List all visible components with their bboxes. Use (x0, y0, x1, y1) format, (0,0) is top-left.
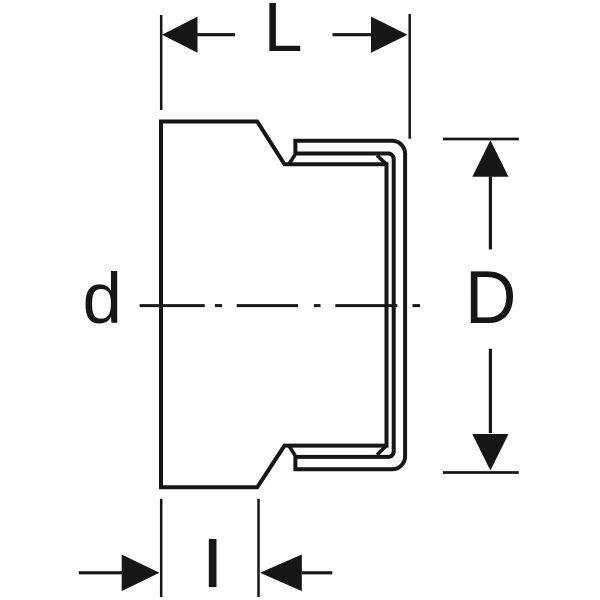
body outline (fitting main profile) (161, 122, 387, 488)
dimension L extension line right (408, 14, 411, 139)
centerline dot 1 (215, 304, 222, 307)
dimension D arrowhead down (472, 434, 508, 471)
dimension L arrowhead right (371, 17, 408, 53)
centerline dot 3 (413, 304, 421, 307)
lip-left taper top (289, 155, 295, 164)
dimension L tail left (197, 33, 235, 36)
dimension D tail upper (489, 177, 492, 250)
dimension l tail left (79, 571, 122, 574)
dimension D extension line top (443, 138, 519, 141)
svg-text:L: L (264, 0, 303, 66)
dimension l arrowhead left (122, 555, 160, 592)
svg-text:D: D (465, 256, 516, 339)
dimension l extension line right (257, 499, 260, 597)
dimension D tail lower (489, 349, 492, 433)
dimension l extension line left (160, 499, 163, 597)
label l (209, 539, 217, 587)
dimension L arrowhead left (162, 17, 198, 53)
dimension D arrowhead up (472, 140, 508, 177)
svg-text:d: d (83, 260, 123, 339)
dimension L extension line left (160, 15, 163, 110)
chamfer edge top right (377, 156, 387, 165)
cap wall (outer and inner surfaces, closed C-section) (295, 141, 405, 470)
dimension l arrowhead right (260, 555, 302, 592)
lip-left taper bottom (289, 446, 295, 455)
centerline dot 2 (314, 304, 321, 307)
dimension L tail right (333, 33, 372, 36)
chamfer edge bottom right (377, 446, 387, 455)
centerline long dash 1 (140, 304, 205, 307)
dimension l tail right (302, 571, 333, 574)
centerline long dash 2 (237, 304, 298, 307)
dimension D extension line bottom (443, 471, 519, 474)
centerline long dash 3 (335, 304, 397, 307)
